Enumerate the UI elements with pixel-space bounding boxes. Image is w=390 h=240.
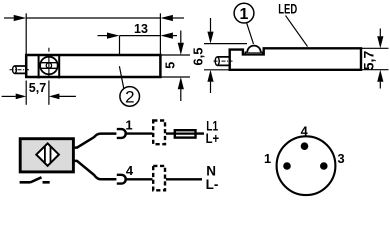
wire fork top [74,134,117,148]
LED pedestal plate [245,52,262,54]
pin 1 dot [283,162,291,170]
connector stub (right view) [217,57,230,66]
svg-text:LED: LED [278,2,297,17]
svg-text:L+: L+ [206,131,220,146]
svg-text:4: 4 [126,163,134,178]
svg-text:5,7: 5,7 [29,81,46,95]
svg-text:3: 3 [337,151,344,166]
label circle 2 leader [119,66,123,88]
sensing square right line [58,54,60,78]
connector socket pin 4 [117,175,126,184]
wire fork bottom [74,161,117,179]
dimension 6,5 (left of right view) [204,43,247,45]
diamond right chord [50,146,52,163]
svg-text:L-: L- [206,177,219,192]
wire through fuse [166,132,204,134]
inductive sensor diamond [36,143,59,165]
svg-text:5: 5 [164,62,178,69]
sensor body outline [26,55,160,77]
connector stub (left view) [15,66,27,73]
diamond left chord [44,146,46,163]
dimension 5,7 (below left) [25,81,27,105]
svg-text:1: 1 [264,151,271,166]
pin 3 dot [320,162,328,170]
dimension 5 (right of body) [160,54,190,56]
extension line for 13 [119,36,121,54]
svg-text:4: 4 [301,124,309,139]
screw circle [40,57,58,75]
fuse [175,130,196,137]
vertical centerline through screw [48,48,50,78]
wire pin4 to terminal [124,178,152,180]
pin 4 dot [301,142,309,150]
svg-text:2: 2 [125,87,134,106]
label circle 2 [120,87,140,107]
screw slot lower chord [41,67,58,69]
extension line right [159,13,161,54]
sensing square left line [38,54,40,78]
label circle 1 [234,3,254,23]
connector socket pin 1 [117,129,126,138]
svg-text:13: 13 [134,22,148,36]
wire pin1 to terminal [124,132,152,134]
stub centerline [10,69,30,71]
LED label leader [286,16,308,47]
svg-text:5,7: 5,7 [361,51,377,71]
wire to N [166,178,202,180]
stub centerline (right view) [214,60,233,62]
label circle 1 leader [247,23,254,44]
dimension 13 [98,35,108,37]
LED dome [247,46,260,53]
svg-text:1: 1 [125,117,132,132]
svg-text:6,5: 6,5 [191,48,206,66]
screw center circle [46,63,51,68]
terminal dashed box top [153,121,165,145]
extension line left [25,13,27,54]
dimension 5,7 (right of right view) [361,47,389,49]
overall dimension line (top, no text) [4,17,14,19]
sensor box (gray) [20,139,73,172]
svg-text:1: 1 [239,6,248,23]
sensor profile outline [230,48,361,70]
NO contact switch symbol [20,177,50,182]
M8 connector circle [277,136,336,195]
screw slot upper chord [41,62,58,64]
terminal dashed box bottom [153,166,165,190]
